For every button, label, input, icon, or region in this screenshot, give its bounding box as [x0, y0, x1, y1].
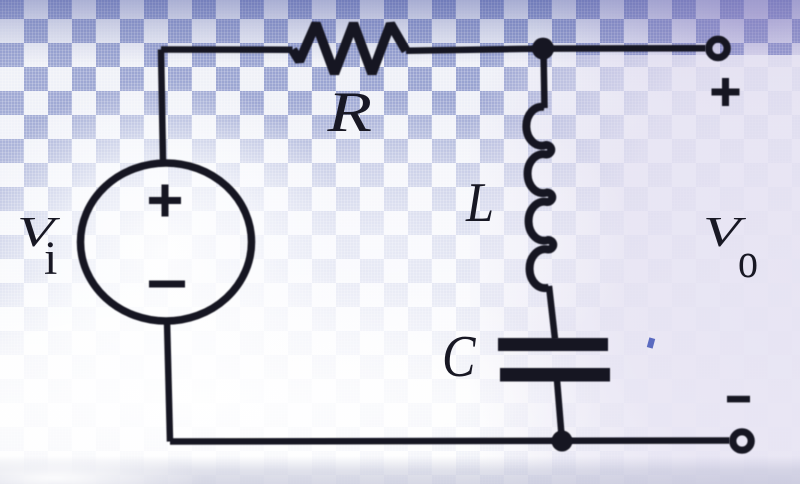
wire left vertical (source top) — [161, 50, 163, 162]
junction node bottom — [552, 431, 573, 452]
voltage source V1 circle — [81, 163, 252, 321]
wire resistor to junction — [406, 49, 543, 51]
label Vo — [703, 209, 758, 288]
plus sign output — [712, 78, 740, 106]
wire source bottom to corner — [167, 321, 170, 442]
svg-text:o: o — [738, 233, 758, 288]
output terminal bottom circle — [733, 432, 751, 450]
minus sign output — [727, 396, 750, 403]
wire top-left horizontal segment — [161, 46, 293, 53]
minus sign inside source — [149, 281, 185, 288]
capacitor C1 bottom plate — [500, 368, 610, 382]
label Vi — [17, 209, 60, 285]
wire capacitor to bottom junction — [557, 380, 562, 441]
svg-text:C: C — [442, 323, 477, 389]
plus sign inside source — [149, 185, 181, 217]
wire junction down to inductor — [544, 49, 545, 108]
wire bottom horizontal — [170, 441, 730, 442]
wire junction to output + terminal — [543, 45, 706, 52]
output terminal top circle — [709, 39, 727, 57]
svg-text:L: L — [465, 172, 494, 234]
svg-text:R: R — [326, 81, 372, 144]
artifact blue tick — [647, 337, 655, 348]
inductor L coil — [526, 107, 553, 288]
junction node top — [532, 38, 554, 60]
wire inductor to capacitor — [549, 286, 555, 339]
capacitor C1 top plate — [498, 338, 608, 351]
resistor R1 zigzag — [293, 24, 407, 74]
svg-text:i: i — [44, 232, 57, 285]
